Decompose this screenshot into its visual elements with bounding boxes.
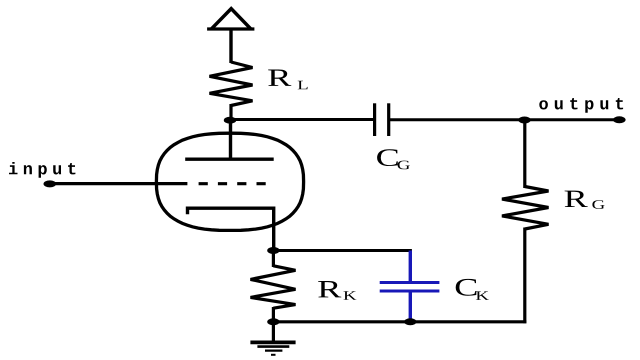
node CK bottom junction	[404, 318, 416, 325]
label input	[9, 162, 75, 178]
wire cathode junction to CK	[273, 249, 412, 252]
wire RG to bottom rail	[523, 228, 526, 324]
tube grid (dashed)	[199, 182, 266, 185]
label CK	[456, 279, 477, 296]
resistor RG	[502, 187, 549, 230]
label CG	[377, 149, 398, 166]
input terminal	[44, 180, 57, 187]
label RL	[268, 70, 291, 86]
resistor RK	[251, 266, 296, 308]
output terminal	[613, 116, 626, 123]
wire input to grid	[52, 182, 187, 185]
bottom rail wire	[273, 320, 526, 323]
power supply arrow	[207, 9, 254, 63]
resistor RL	[210, 62, 253, 106]
wire plate junction to CG	[231, 118, 373, 121]
tube cathode	[188, 208, 274, 250]
node plate junction	[224, 117, 236, 124]
wire cathode junction to RK	[272, 249, 275, 267]
wire output junction to RG	[523, 119, 526, 188]
label RG	[565, 191, 588, 207]
tube plate lead	[229, 120, 232, 160]
ground	[250, 322, 295, 355]
label RK	[318, 281, 341, 297]
wire RL to plate junction	[229, 104, 232, 121]
wire CG to output terminal	[390, 118, 618, 121]
capacitor CK (blue)	[380, 251, 440, 323]
node cathode junction	[267, 247, 279, 254]
node output junction	[518, 117, 530, 124]
tube plate	[185, 158, 274, 161]
wire RK to ground junction	[272, 307, 275, 322]
label output	[539, 98, 623, 113]
capacitor CG	[375, 103, 389, 136]
node RK bottom junction	[267, 318, 279, 325]
tube V1 envelope	[156, 133, 303, 230]
